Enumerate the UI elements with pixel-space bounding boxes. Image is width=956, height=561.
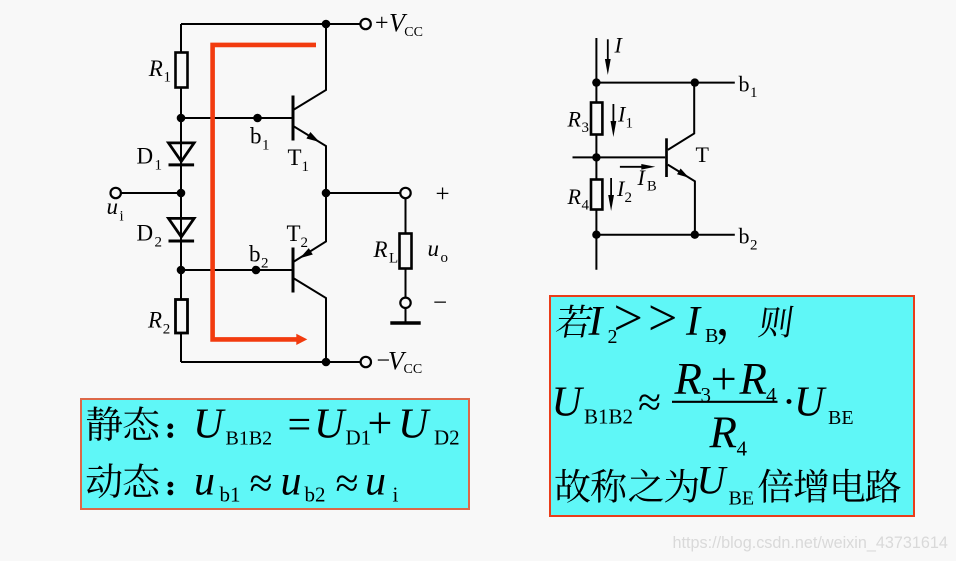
node b2 right	[691, 231, 699, 239]
label b1 right	[739, 72, 758, 102]
svg-text:2: 2	[625, 190, 633, 206]
node junction top right	[592, 78, 600, 86]
wire T1 emitter	[294, 127, 326, 194]
svg-text:1: 1	[164, 70, 172, 86]
svg-text:2: 2	[301, 235, 309, 251]
svg-text:4: 4	[766, 383, 777, 407]
node b2	[252, 266, 261, 275]
label comma	[718, 329, 725, 345]
label dongtai	[87, 463, 159, 498]
svg-text:1: 1	[626, 116, 634, 132]
label R2	[147, 308, 170, 338]
wire mid rail	[573, 156, 666, 158]
svg-text:2: 2	[155, 235, 163, 251]
terminal output +	[400, 188, 410, 198]
svg-text:u: u	[281, 459, 302, 505]
label -Vcc	[377, 346, 423, 377]
label R4	[567, 184, 590, 214]
current arrow I	[605, 39, 611, 75]
ground	[390, 321, 420, 325]
node bottom junction	[592, 231, 600, 239]
label RL	[373, 237, 399, 267]
resistor R4	[591, 180, 602, 210]
svg-text:R: R	[567, 107, 582, 132]
red current path	[213, 45, 316, 345]
node input junction	[177, 189, 186, 198]
svg-text:R: R	[373, 237, 388, 262]
wire right vertical	[595, 38, 597, 270]
svg-text:1: 1	[262, 138, 270, 154]
resistor R3	[591, 103, 602, 135]
svg-text:D2: D2	[434, 426, 460, 450]
svg-text:=: =	[288, 403, 312, 449]
wire T emitter	[668, 165, 695, 235]
wire input	[121, 192, 181, 194]
svg-text:BE: BE	[729, 488, 755, 510]
diode D1	[169, 143, 195, 165]
label b2	[249, 242, 269, 272]
svg-text:B1B2: B1B2	[226, 428, 273, 450]
label b1	[250, 124, 270, 154]
svg-text:b1: b1	[220, 483, 241, 507]
node b1 right	[691, 78, 699, 86]
svg-text:R: R	[739, 354, 768, 404]
svg-text:CC: CC	[404, 25, 423, 40]
svg-text:4: 4	[737, 437, 748, 461]
svg-text:R: R	[674, 354, 703, 404]
svg-text:R: R	[148, 56, 163, 81]
label uo	[428, 236, 449, 266]
formula UBE	[697, 457, 755, 509]
terminal output -	[400, 298, 410, 308]
formula I2>>IB, ze	[588, 290, 719, 348]
wire RL bottom	[405, 269, 407, 298]
svg-text:+: +	[375, 11, 389, 37]
formula UB1B2=UD1+UD2	[193, 399, 460, 450]
label +Vcc	[375, 9, 423, 41]
diode D2	[169, 218, 195, 241]
node b1	[253, 114, 262, 123]
svg-text:≈: ≈	[336, 461, 359, 507]
transistor T	[667, 138, 690, 177]
label D2	[137, 221, 163, 251]
svg-text:≈: ≈	[638, 380, 661, 426]
label D1	[137, 144, 163, 174]
wire T2 emitter	[294, 193, 326, 262]
svg-text:B: B	[705, 325, 718, 347]
svg-text:T: T	[288, 145, 302, 170]
svg-text:2: 2	[163, 322, 171, 338]
svg-text:U: U	[193, 402, 226, 448]
svg-text:D: D	[137, 144, 154, 169]
node output junction	[322, 189, 331, 198]
svg-text:+: +	[436, 181, 450, 208]
hidden CJK glyph defs	[0, 0, 1, 1]
formula box UBE multiplier	[549, 295, 916, 517]
wire output	[326, 192, 400, 194]
wire T collector	[668, 83, 694, 150]
formula UB1B2 approx fraction	[552, 353, 854, 461]
wire top rail	[181, 23, 360, 25]
svg-text:I: I	[614, 33, 624, 58]
svg-text:3: 3	[701, 383, 712, 407]
svg-text:R: R	[567, 184, 582, 209]
node junction bottom	[322, 358, 331, 367]
svg-text:https://blog.csdn.net/weixin_4: https://blog.csdn.net/weixin_43731614	[673, 534, 948, 552]
svg-text:b: b	[250, 124, 262, 149]
node junction top	[322, 20, 331, 29]
node mid junction	[592, 153, 600, 161]
wire RL top	[405, 199, 407, 234]
svg-text:I: I	[588, 299, 605, 345]
svg-text:BE: BE	[828, 407, 854, 429]
svg-text:U: U	[314, 402, 347, 448]
label ruo	[555, 305, 594, 338]
svg-text:4: 4	[582, 198, 590, 214]
svg-text:1: 1	[302, 159, 310, 175]
svg-text:B1B2: B1B2	[584, 405, 633, 429]
svg-text:+: +	[711, 353, 737, 404]
transistor T2	[293, 248, 313, 293]
svg-text:−: −	[433, 290, 447, 317]
svg-text:U: U	[697, 457, 729, 502]
svg-text:+: +	[368, 399, 393, 448]
svg-text:2: 2	[261, 256, 269, 272]
svg-text:b: b	[739, 72, 750, 97]
current arrow I1	[611, 104, 617, 137]
wire b1 rail	[596, 82, 734, 84]
svg-text:u: u	[194, 459, 215, 505]
svg-text:R: R	[147, 308, 162, 333]
label IB	[637, 165, 657, 195]
node D2-R2 junction	[177, 266, 186, 275]
label ui	[107, 194, 124, 225]
terminal +Vcc	[360, 19, 370, 29]
terminal input ui	[111, 188, 121, 198]
svg-text:u: u	[107, 194, 119, 219]
svg-text:3: 3	[582, 120, 590, 136]
svg-text:b: b	[249, 242, 261, 267]
svg-text:1: 1	[750, 85, 758, 101]
resistor R1	[176, 53, 188, 88]
formula ub1=ub2=ui	[194, 459, 399, 507]
svg-text:≈: ≈	[250, 461, 273, 507]
svg-text:1: 1	[155, 158, 163, 174]
svg-text:i: i	[393, 483, 399, 507]
label gu cheng zhi wei	[555, 469, 698, 503]
wire base b1	[181, 117, 292, 119]
terminal -Vcc	[361, 357, 371, 367]
label I1	[617, 102, 633, 132]
svg-text:T: T	[696, 142, 710, 167]
svg-text:2: 2	[750, 238, 758, 254]
svg-text:u: u	[365, 459, 386, 505]
wire bottom rail	[181, 361, 361, 363]
wire left vertical	[180, 24, 182, 362]
svg-text:CC: CC	[404, 362, 423, 377]
label ze	[758, 306, 794, 338]
label jingtai	[87, 406, 159, 441]
label I2	[616, 176, 632, 206]
svg-text:u: u	[428, 236, 440, 261]
svg-text:b2: b2	[305, 483, 326, 507]
svg-text:T: T	[287, 221, 301, 246]
svg-text:b: b	[739, 224, 750, 249]
label R1	[148, 56, 171, 86]
svg-text:U: U	[794, 380, 827, 426]
wire ground stem	[405, 308, 407, 322]
label bei zeng dian lu	[758, 469, 900, 503]
wire T2 collector	[294, 279, 326, 363]
svg-text:B: B	[647, 179, 657, 195]
wire T1 collector	[294, 24, 326, 110]
wire base b2	[181, 269, 292, 271]
svg-text:>: >	[648, 290, 677, 347]
svg-text:D: D	[137, 221, 154, 246]
label b2 right	[739, 224, 758, 254]
svg-text:U: U	[398, 402, 431, 448]
transistor T1	[293, 96, 320, 143]
svg-text:U: U	[552, 380, 585, 426]
formula box static/dynamic	[80, 398, 470, 510]
current arrow I2	[608, 178, 614, 211]
resistor R2	[176, 300, 188, 334]
current arrow IB	[620, 164, 655, 170]
node junction R1-D1	[177, 114, 186, 123]
svg-text:L: L	[389, 251, 398, 267]
svg-text:R: R	[709, 408, 738, 458]
label R3	[567, 107, 590, 137]
resistor RL	[400, 234, 412, 269]
svg-text:I: I	[685, 299, 702, 345]
label T1	[288, 145, 310, 175]
label T2	[287, 221, 309, 251]
svg-text:o: o	[441, 250, 449, 266]
wire b2 rail	[596, 234, 734, 236]
svg-text:>: >	[614, 290, 643, 347]
svg-text:i: i	[120, 209, 124, 225]
